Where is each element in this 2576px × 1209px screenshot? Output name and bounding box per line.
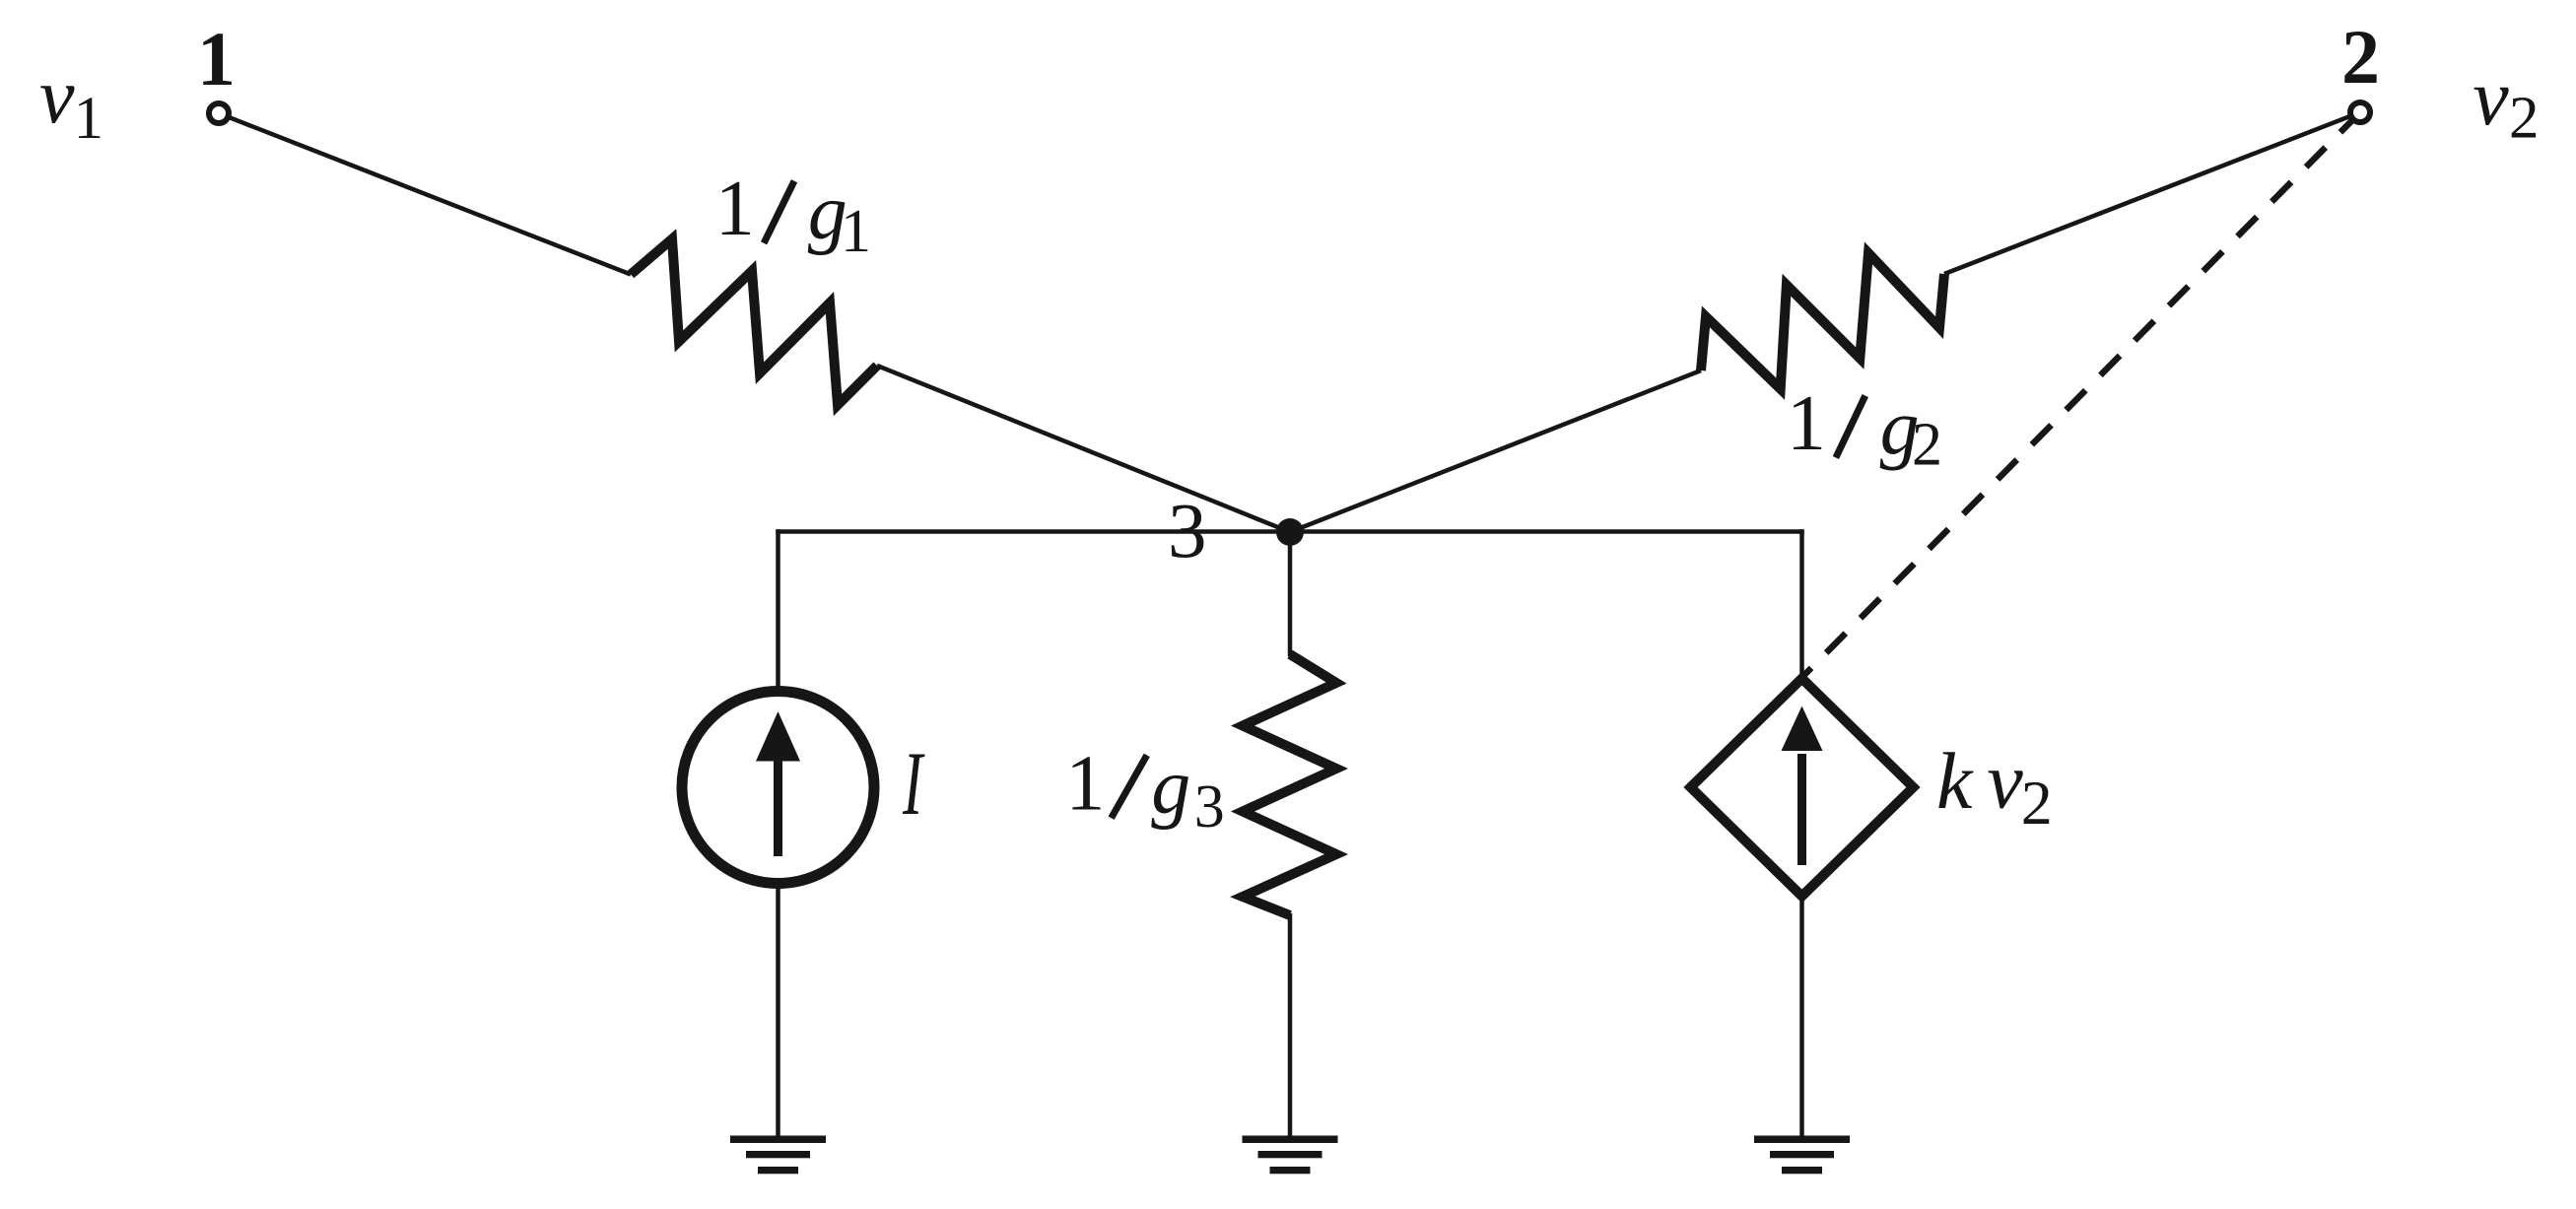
svg-text:v: v [1987, 736, 2023, 826]
svg-text:I: I [902, 734, 924, 835]
svg-text:g: g [1151, 744, 1190, 831]
svg-text:2: 2 [2021, 768, 2053, 838]
svg-text:v: v [39, 53, 75, 140]
svg-text:3: 3 [1194, 773, 1225, 840]
svg-text:2: 2 [2341, 14, 2380, 100]
svg-text:v: v [2473, 52, 2509, 142]
svg-text:1: 1 [1065, 741, 1105, 828]
svg-text:1: 1 [74, 86, 104, 152]
svg-text:1: 1 [197, 16, 236, 101]
svg-text:1: 1 [1787, 380, 1826, 467]
svg-text:2: 2 [2509, 86, 2540, 152]
svg-text:2: 2 [1912, 412, 1942, 479]
svg-text:1: 1 [715, 166, 755, 252]
svg-text:1: 1 [841, 198, 871, 265]
svg-text:3: 3 [1168, 489, 1207, 574]
svg-text:k: k [1936, 736, 1974, 826]
